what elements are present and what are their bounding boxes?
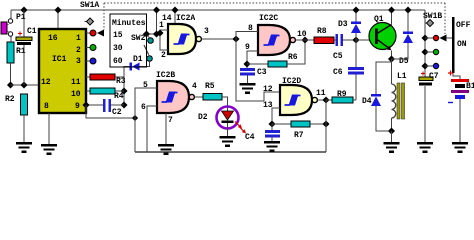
node C4/R7 [268,120,275,127]
svg-text:C2: C2 [112,108,122,117]
ground C3 [240,83,256,94]
wire IC2A output [201,38,236,40]
svg-text:11: 11 [316,89,326,98]
wire base drive [356,39,376,41]
wire IC2C in9 RC node [247,51,258,68]
wire IC2B pin7 [165,113,167,144]
wire selected timing line [147,33,161,35]
wire IC2A out to IC2D in12 [236,39,280,101]
svg-text:3: 3 [76,57,81,66]
diode D5 [392,6,414,66]
svg-text:L1: L1 [397,72,407,81]
capacitor C6 [333,40,364,100]
svg-text:9: 9 [75,102,80,111]
wire IC2B in5 from bus [135,88,157,152]
switch SW1A [80,1,104,37]
wire feedback riser and bus tap [325,100,327,152]
gate U2D (IC2D) [263,77,326,115]
wire pin12 [11,84,40,86]
svg-text:7: 7 [168,116,173,125]
svg-text:6: 6 [141,103,146,112]
svg-text:30: 30 [113,44,123,53]
svg-text:2: 2 [76,46,81,55]
svg-text:2: 2 [161,51,166,60]
svg-text:SW2: SW2 [131,34,146,43]
wire IC2A inputs tie [160,30,168,50]
node R4/D1 [120,87,127,94]
resistor R1 [7,42,26,85]
node IC2D out [322,96,329,103]
ground C4 [264,141,280,152]
svg-text:SW1B: SW1B [423,12,442,21]
svg-text:IC1: IC1 [52,55,67,64]
svg-text:60: 60 [113,57,123,66]
node emitter [388,55,395,62]
wire pin8 [48,113,50,144]
ground C7 [417,142,433,153]
svg-text:C7: C7 [429,72,439,81]
gate U2A (IC2A) [159,6,209,60]
svg-text:SW1A: SW1A [80,1,99,10]
resistor R7 [272,121,326,140]
svg-text:4: 4 [192,82,197,91]
node pin1 contact (15 min) [86,30,96,36]
svg-text:OFF: OFF [456,21,471,30]
ground B1 [452,142,468,153]
node R6/C3 [243,60,250,67]
ground D2 [220,136,236,147]
svg-text:12: 12 [41,78,51,87]
svg-text:D4: D4 [362,97,372,106]
ground IC1 pin8 [41,144,57,155]
svg-text:IC2C: IC2C [259,14,278,23]
svg-text:R7: R7 [294,131,304,140]
transistor Q1 [369,6,396,59]
node pin3 contact (60 min) [86,58,96,64]
svg-text:ON: ON [457,40,467,49]
resistor R3 [86,74,126,86]
capacitor C3 [240,68,267,83]
svg-text:R2: R2 [5,95,15,104]
svg-text:R8: R8 [317,27,327,36]
wire top supply rail [11,9,425,11]
resistor R4 [86,88,124,101]
svg-text:3: 3 [204,27,209,36]
svg-text:R4: R4 [114,92,124,101]
svg-text:Minutes: Minutes [112,19,146,28]
svg-text:D1: D1 [133,55,143,64]
pushbutton P1 [1,10,26,42]
svg-text:15: 15 [113,31,123,40]
switch SW1B [421,10,470,79]
ground IC2B pin7 [158,144,174,155]
resistor R5 [194,82,227,107]
battery B1 [448,71,474,143]
svg-text:12: 12 [263,85,273,94]
inductor L1 [392,62,407,131]
svg-text:D5: D5 [399,57,409,66]
resistor R2 [5,94,28,142]
svg-text:1: 1 [159,21,164,30]
wire pin9 return loop [86,105,135,118]
resistor R6 [247,40,305,67]
gate U2B (IC2B) [141,71,197,125]
wire rail to timing line [156,10,158,34]
wire to ground [391,131,393,142]
node D3/C5/C6 [352,36,359,43]
wire IC2D in13 [272,108,280,124]
svg-text:5: 5 [143,81,148,90]
svg-text:IC2A: IC2A [176,14,195,23]
capacitor C4 [245,124,280,142]
wire SW1 mechanical dotted linkage [104,3,445,34]
node R7 feedback [322,120,329,127]
node R1/R2/pin12 [7,81,14,88]
IC IC1 (CD4060 timer/counter) [39,6,86,113]
node C1/R2 [20,81,27,88]
svg-text:R6: R6 [288,53,298,62]
wire IC2D output [317,99,326,101]
ground R2 [16,142,32,153]
resistor R9 [326,90,356,103]
diode D1 [124,55,150,105]
node IC2C out [301,36,308,43]
ground L1 [384,142,400,153]
capacitor C5 [333,34,356,61]
diode D4 [362,59,392,131]
svg-text:16: 16 [48,34,58,43]
svg-text:C4: C4 [245,133,255,142]
node L1/D4 bottom [388,127,395,134]
svg-text:R5: R5 [205,82,215,91]
LED D2 [198,107,246,137]
capacitor C2 [82,99,124,117]
node C2/D1 [120,101,127,108]
svg-text:R3: R3 [116,77,126,86]
resistor R8 [314,27,336,44]
wire IC2C output [295,39,314,41]
wire bottom bus [135,151,326,153]
gate U2C (IC2C) [245,14,307,55]
svg-text:8: 8 [44,102,49,111]
switch SW2 [131,30,153,61]
svg-text:1: 1 [76,34,81,43]
selector legend Minutes box [110,14,147,67]
svg-text:C1: C1 [27,27,37,36]
svg-text:13: 13 [263,101,273,110]
node IC2A out [232,35,239,42]
svg-text:10: 10 [71,90,81,99]
svg-text:11: 11 [71,78,81,87]
capacitor C7 [419,72,439,143]
svg-text:D2: D2 [198,113,208,122]
node pin2 contact (30 min) [86,45,96,51]
svg-text:D3: D3 [338,20,348,29]
svg-text:IC2B: IC2B [156,71,175,80]
wire IC2A out to IC2C in8 [236,32,258,40]
wire IC2B in6 [147,106,157,152]
svg-text:C5: C5 [333,52,343,61]
svg-text:B1: B1 [466,82,474,91]
svg-text:C6: C6 [333,68,343,77]
diode D3 [338,6,361,40]
svg-text:C3: C3 [257,68,267,77]
capacitor C1 [16,6,37,85]
